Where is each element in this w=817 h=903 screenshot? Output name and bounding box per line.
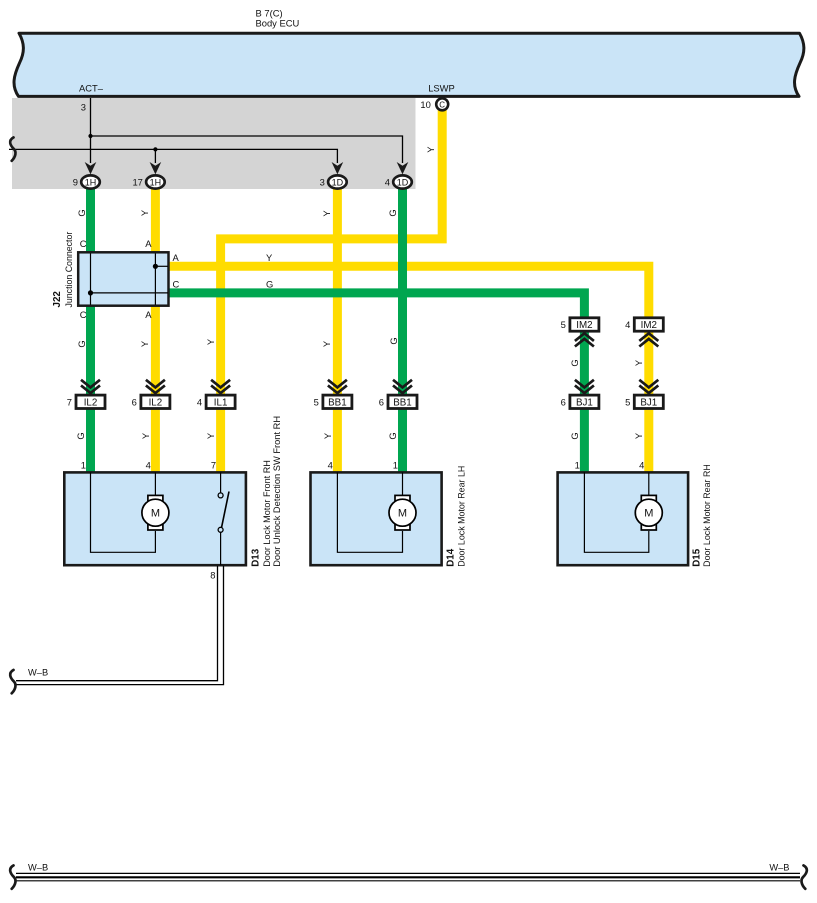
svg-text:4: 4: [328, 459, 333, 470]
svg-text:4: 4: [385, 176, 390, 187]
svg-text:D14: D14: [446, 548, 457, 567]
svg-text:Door Lock Motor Front RH: Door Lock Motor Front RH: [262, 460, 272, 567]
svg-text:1H: 1H: [150, 177, 162, 187]
svg-text:Y: Y: [322, 432, 333, 439]
arrow into connector: [150, 162, 162, 174]
svg-text:Door Lock Motor Rear RH: Door Lock Motor Rear RH: [702, 464, 712, 567]
node dot C inside J22: [88, 290, 93, 295]
chevron down into connector: [146, 380, 165, 393]
break symbol left end of ground bus: [10, 865, 15, 888]
svg-text:IM2: IM2: [641, 320, 657, 331]
svg-text:G: G: [387, 209, 398, 216]
svg-text:G: G: [75, 432, 86, 439]
svg-text:4: 4: [146, 459, 151, 470]
break symbol right end of ground bus: [802, 865, 807, 888]
svg-text:ACT–: ACT–: [79, 83, 104, 94]
svg-text:1D: 1D: [332, 177, 344, 187]
connector IL1 pin 4: [206, 395, 235, 408]
internal wiring D13: [91, 472, 156, 552]
wire Y from 1H pin17 down to D13 pin 4: [151, 187, 160, 474]
svg-text:G: G: [569, 432, 580, 439]
svg-text:1H: 1H: [85, 177, 97, 187]
connector IL2 pin 6: [141, 395, 170, 408]
svg-text:6: 6: [132, 396, 137, 407]
wire ACT- vertical from Body ECU pin 3: [90, 98, 92, 163]
break symbol on W-B wire: [10, 670, 15, 693]
connector BJ1 pin 5: [634, 395, 663, 408]
svg-text:IM2: IM2: [576, 320, 592, 331]
svg-text:A: A: [145, 309, 152, 320]
connector IM2 pin 4: [634, 318, 663, 331]
svg-text:10: 10: [420, 99, 430, 110]
ground bus W-B lines: [16, 872, 800, 874]
wire Y junction connector A row to IM2/BJ1/D15 pin 4: [167, 266, 649, 474]
svg-text:Y: Y: [140, 432, 151, 439]
svg-text:A: A: [173, 252, 180, 263]
svg-text:G: G: [388, 337, 399, 344]
wire drop to 1H pin 17: [154, 149, 156, 163]
junction connector J22 box: [78, 252, 168, 305]
svg-text:3: 3: [320, 176, 325, 187]
svg-text:C: C: [80, 238, 87, 249]
arrow into connector: [397, 162, 409, 174]
svg-text:Y: Y: [139, 209, 150, 216]
harness shield area: [12, 98, 416, 189]
svg-text:A: A: [145, 238, 152, 249]
node junction dot on horizontal bus: [153, 147, 157, 151]
chevron down into connector: [575, 380, 594, 393]
svg-text:W–B: W–B: [28, 668, 48, 678]
svg-text:Y: Y: [321, 340, 332, 347]
svg-text:4: 4: [625, 319, 630, 330]
break symbol left edge of harness area: [10, 137, 15, 160]
svg-text:1: 1: [81, 459, 86, 470]
svg-text:6: 6: [561, 396, 566, 407]
svg-text:5: 5: [314, 396, 319, 407]
chevron down into connector: [393, 380, 412, 393]
node dot A inside J22: [153, 264, 158, 269]
svg-text:M: M: [151, 508, 160, 520]
wire horizontal bus to 1H pin 17 and 1D pin 3: [9, 149, 337, 163]
motor M in D13: [148, 495, 163, 501]
svg-text:BJ1: BJ1: [640, 397, 657, 408]
svg-text:5: 5: [561, 319, 566, 330]
chevron down into connector: [81, 380, 100, 393]
svg-text:4: 4: [639, 459, 644, 470]
chevron down into connector: [328, 380, 347, 393]
internal wiring D15: [584, 472, 648, 552]
wire Y from 1D pin3 down to D14 pin 4: [333, 187, 342, 474]
door unlock detection switch in D13: [220, 472, 222, 492]
svg-text:IL1: IL1: [214, 397, 228, 408]
svg-text:Y: Y: [139, 340, 150, 347]
svg-text:BB1: BB1: [328, 397, 347, 408]
motor M in D15: [641, 495, 656, 501]
chevron down into connector: [639, 380, 658, 393]
svg-text:BJ1: BJ1: [576, 397, 593, 408]
wire G from 1H pin9 down to D13 pin 1: [86, 187, 95, 474]
connector 1D pin 4: [393, 175, 412, 188]
svg-text:1: 1: [393, 459, 398, 470]
svg-text:M: M: [644, 508, 653, 520]
svg-text:G: G: [76, 209, 87, 216]
svg-text:D15: D15: [691, 548, 702, 567]
component D13 Door Lock Motor Front RH box: [64, 472, 246, 565]
svg-text:IL2: IL2: [149, 397, 163, 408]
wire G from 1D pin4 down to D14 pin 1: [398, 187, 407, 474]
svg-text:5: 5: [625, 396, 630, 407]
connector BB1 pin 6: [388, 395, 417, 408]
connector IM2 pin 5: [570, 318, 599, 331]
svg-text:Y: Y: [321, 210, 332, 217]
chevron up below IM2 pin4: [639, 333, 658, 346]
component D14 Door Lock Motor Rear LH box: [311, 472, 442, 565]
connector circle C of LSWP pin 10: [436, 98, 448, 110]
svg-text:7: 7: [211, 459, 216, 470]
svg-text:8: 8: [210, 569, 215, 580]
chevron up below IM2 pin5: [575, 333, 594, 346]
arrow into connector: [85, 162, 97, 174]
svg-text:3: 3: [81, 101, 86, 112]
svg-text:Door Lock Motor Rear LH: Door Lock Motor Rear LH: [456, 466, 466, 567]
svg-text:LSWP: LSWP: [428, 83, 455, 94]
svg-text:Y: Y: [205, 338, 216, 345]
motor M in D14: [395, 495, 410, 501]
svg-text:G: G: [569, 359, 580, 366]
arrow into connector: [332, 162, 344, 174]
connector 1H pin 17: [146, 175, 165, 188]
svg-text:Y: Y: [266, 252, 273, 263]
svg-text:1: 1: [575, 459, 580, 470]
svg-text:M: M: [398, 508, 407, 520]
svg-text:W–B: W–B: [769, 862, 789, 872]
wire W-B double line from D13 pin 8 to left: [16, 566, 218, 681]
svg-text:7: 7: [67, 396, 72, 407]
svg-text:Body ECU: Body ECU: [256, 18, 300, 29]
node junction dot on ACT- wire: [88, 134, 92, 138]
connector BJ1 pin 6: [570, 395, 599, 408]
svg-text:Y: Y: [425, 146, 436, 153]
svg-text:6: 6: [379, 396, 384, 407]
svg-text:Junction Connector: Junction Connector: [64, 232, 74, 308]
svg-text:Y: Y: [633, 432, 644, 439]
svg-text:Door Unlock Detection SW Front: Door Unlock Detection SW Front RH: [272, 416, 282, 567]
wire G junction connector C row to IM2/BJ1/D15 pin 1: [167, 293, 584, 474]
svg-text:C: C: [80, 309, 87, 320]
svg-text:4: 4: [197, 396, 202, 407]
connector 1H pin 9: [81, 175, 100, 188]
svg-text:D13: D13: [250, 548, 261, 567]
chevron down into connector: [211, 380, 230, 393]
svg-text:BB1: BB1: [393, 397, 412, 408]
svg-text:1D: 1D: [397, 177, 409, 187]
svg-text:Y: Y: [633, 359, 644, 366]
connector IL2 pin 7: [76, 395, 105, 408]
svg-text:17: 17: [132, 176, 142, 187]
svg-text:G: G: [266, 278, 273, 289]
internal wiring D14: [337, 472, 402, 552]
wire Y from LSWP down and left to IL1: [221, 108, 443, 474]
connector 1D pin 3: [328, 175, 347, 188]
wire horizontal from ACT- node to 1D pin 4: [91, 136, 403, 163]
svg-text:J22: J22: [52, 291, 63, 308]
component D15 Door Lock Motor Rear RH box: [558, 472, 689, 565]
svg-text:IL2: IL2: [84, 397, 98, 408]
svg-text:G: G: [387, 432, 398, 439]
svg-text:9: 9: [73, 176, 78, 187]
svg-text:G: G: [76, 340, 87, 347]
Body ECU connector band B7(C): [14, 33, 804, 96]
svg-text:Y: Y: [205, 432, 216, 439]
svg-text:C: C: [439, 100, 445, 109]
svg-text:C: C: [173, 278, 180, 289]
connector BB1 pin 5: [323, 395, 352, 408]
svg-text:W–B: W–B: [28, 862, 48, 872]
